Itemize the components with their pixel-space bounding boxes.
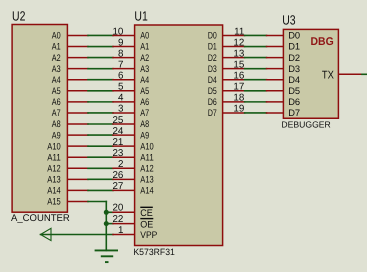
svg-text:OE: OE	[140, 219, 153, 230]
svg-text:CE: CE	[140, 208, 153, 219]
svg-text:D0: D0	[288, 30, 300, 41]
svg-text:DEBUGGER: DEBUGGER	[281, 120, 330, 130]
wire D1 U1 to U3	[223, 46, 245, 48]
svg-text:17: 17	[233, 82, 244, 93]
svg-text:21: 21	[112, 137, 123, 148]
svg-text:12: 12	[233, 37, 244, 48]
svg-text:A6: A6	[52, 97, 61, 108]
input terminal arrow	[41, 228, 52, 240]
svg-text:K573RF31: K573RF31	[133, 247, 175, 257]
svg-text:A2: A2	[52, 53, 61, 64]
wire TX out	[338, 73, 362, 75]
svg-text:A8: A8	[52, 119, 61, 130]
svg-text:VPP: VPP	[140, 230, 157, 241]
svg-text:9: 9	[118, 37, 123, 48]
wire A7 U2 to U1	[67, 112, 88, 114]
wire D0 U1 to U3	[223, 34, 245, 36]
svg-text:DBG: DBG	[311, 36, 334, 48]
svg-text:A13: A13	[140, 175, 153, 186]
svg-text:6: 6	[118, 71, 124, 82]
wire A0 U2 to U1	[67, 34, 88, 36]
svg-text:A5: A5	[140, 86, 149, 97]
junction at OE	[104, 221, 109, 226]
svg-text:25: 25	[112, 115, 123, 126]
svg-text:A9: A9	[52, 130, 61, 141]
wire vertical A15 to ground	[105, 202, 107, 251]
svg-text:A8: A8	[140, 119, 149, 130]
svg-text:U2: U2	[12, 8, 25, 23]
svg-text:D5: D5	[288, 85, 300, 96]
svg-text:U1: U1	[134, 8, 147, 23]
svg-text:D4: D4	[288, 74, 300, 85]
svg-text:A11: A11	[47, 152, 60, 163]
svg-text:27: 27	[112, 181, 123, 192]
svg-text:D0: D0	[208, 31, 217, 42]
svg-text:5: 5	[118, 82, 124, 93]
wire D4 U1 to U3	[223, 79, 245, 81]
svg-text:A5: A5	[52, 86, 61, 97]
wire A4 U2 to U1	[67, 79, 88, 81]
svg-text:A14: A14	[47, 186, 60, 197]
svg-text:D2: D2	[288, 52, 300, 63]
wire D5 U1 to U3	[223, 90, 245, 92]
svg-text:26: 26	[112, 170, 123, 181]
wire A2 U2 to U1	[67, 57, 88, 59]
junction at CE	[104, 210, 109, 215]
svg-text:3: 3	[118, 104, 124, 115]
svg-text:22: 22	[112, 214, 123, 225]
svg-text:A1: A1	[52, 42, 61, 53]
svg-text:A_COUNTER: A_COUNTER	[11, 213, 70, 224]
wire A10 U2 to U1	[67, 145, 88, 147]
component U2 body	[12, 25, 67, 213]
wire A11 U2 to U1	[67, 156, 88, 158]
svg-text:A4: A4	[52, 75, 61, 86]
wire to OE pin 22	[106, 223, 113, 225]
svg-text:15: 15	[233, 59, 244, 70]
svg-text:D4: D4	[208, 75, 217, 86]
wire A1 U2 to U1	[67, 46, 88, 48]
svg-text:D7: D7	[288, 107, 300, 118]
svg-text:A3: A3	[140, 64, 149, 75]
wire D6 U1 to U3	[223, 101, 245, 103]
wire A5 U2 to U1	[67, 90, 88, 92]
svg-text:D6: D6	[208, 97, 217, 108]
wire A13 U2 to U1	[67, 178, 88, 180]
wire VPP to terminal	[41, 234, 114, 236]
svg-text:A9: A9	[140, 130, 149, 141]
svg-text:A1: A1	[140, 42, 149, 53]
svg-text:8: 8	[118, 48, 124, 59]
svg-text:16: 16	[233, 71, 244, 82]
svg-text:A4: A4	[140, 75, 149, 86]
svg-text:A11: A11	[140, 152, 153, 163]
svg-text:13: 13	[233, 48, 244, 59]
svg-text:D1: D1	[288, 41, 300, 52]
svg-text:23: 23	[112, 148, 123, 159]
svg-text:A3: A3	[52, 64, 61, 75]
svg-text:A7: A7	[52, 108, 61, 119]
wire A6 U2 to U1	[67, 101, 88, 103]
svg-text:7: 7	[118, 59, 123, 70]
svg-text:A6: A6	[140, 97, 149, 108]
ground	[95, 250, 118, 262]
svg-text:1: 1	[118, 225, 123, 236]
svg-text:2: 2	[118, 159, 123, 170]
svg-text:D5: D5	[208, 86, 217, 97]
svg-text:A10: A10	[47, 141, 60, 152]
svg-text:4: 4	[118, 93, 124, 104]
component U3 body	[283, 29, 338, 118]
wire to CE pin 20	[106, 211, 113, 213]
wire A12 U2 to U1	[67, 167, 88, 169]
svg-text:A12: A12	[47, 163, 60, 174]
svg-text:D1: D1	[208, 42, 217, 53]
component U1 body	[135, 25, 223, 246]
svg-text:U3: U3	[282, 13, 295, 28]
wire A3 U2 to U1	[67, 68, 88, 70]
svg-text:A15: A15	[47, 197, 60, 208]
wire D7 U1 to U3	[223, 112, 245, 114]
svg-text:A13: A13	[47, 175, 60, 186]
svg-text:A0: A0	[140, 31, 149, 42]
svg-text:A10: A10	[140, 141, 153, 152]
wire D2 U1 to U3	[223, 57, 245, 59]
svg-text:20: 20	[112, 203, 123, 214]
wire A8 U2 to U1	[67, 123, 88, 125]
svg-text:A2: A2	[140, 53, 149, 64]
svg-text:11: 11	[234, 26, 244, 37]
svg-text:D2: D2	[208, 53, 217, 64]
wire A15 from U2	[67, 201, 88, 203]
svg-text:A0: A0	[52, 31, 61, 42]
svg-text:D7: D7	[208, 108, 217, 119]
svg-text:19: 19	[233, 104, 244, 115]
svg-text:D3: D3	[208, 64, 217, 75]
svg-text:TX: TX	[322, 69, 334, 81]
svg-text:24: 24	[112, 126, 123, 137]
svg-text:A14: A14	[140, 186, 153, 197]
svg-text:18: 18	[233, 93, 244, 104]
svg-text:A7: A7	[140, 108, 149, 119]
svg-text:A12: A12	[140, 163, 153, 174]
wire A9 U2 to U1	[67, 134, 88, 136]
svg-text:10: 10	[112, 26, 123, 37]
svg-text:D3: D3	[288, 63, 300, 74]
svg-text:D6: D6	[288, 96, 300, 107]
wire A14 U2 to U1	[67, 189, 88, 191]
wire D3 U1 to U3	[223, 68, 245, 70]
